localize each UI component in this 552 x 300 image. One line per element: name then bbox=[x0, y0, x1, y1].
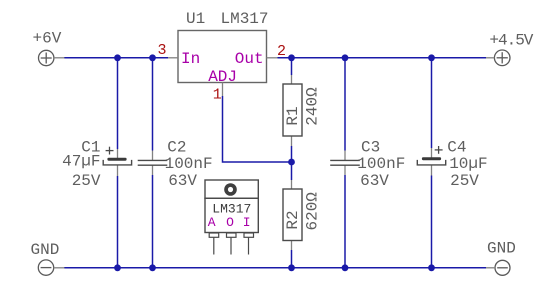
svg-text:47µF: 47µF bbox=[62, 153, 100, 171]
junction bottom C3 bbox=[342, 264, 349, 271]
wire C1 branch bbox=[117, 58, 119, 268]
svg-text:R1: R1 bbox=[284, 106, 302, 125]
pin 1 ADJ of U1 bbox=[208, 68, 237, 103]
capacitor C2 100nF bbox=[138, 139, 213, 190]
svg-text:C2: C2 bbox=[167, 139, 186, 157]
svg-text:O: O bbox=[226, 215, 234, 230]
svg-text:10µF: 10µF bbox=[449, 155, 487, 173]
wire top-right rail bbox=[278, 57, 487, 59]
power flag +6V bbox=[33, 30, 65, 66]
svg-text:Out: Out bbox=[235, 50, 264, 68]
junction top R1 bbox=[288, 54, 295, 61]
wire R1 R2 branch bbox=[291, 58, 293, 268]
svg-text:63V: 63V bbox=[360, 172, 389, 190]
junction bottom C1 bbox=[114, 264, 121, 271]
svg-text:C4: C4 bbox=[447, 139, 466, 157]
TO-220 package picture of LM317 bbox=[205, 180, 258, 255]
svg-text:3: 3 bbox=[158, 42, 167, 59]
svg-text:C3: C3 bbox=[361, 139, 380, 157]
junction top C4 bbox=[428, 54, 435, 61]
svg-text:+6V: +6V bbox=[33, 30, 62, 48]
resistor R2 bbox=[283, 180, 321, 250]
svg-text:100nF: 100nF bbox=[357, 155, 405, 173]
pin 2 Out of U1 bbox=[235, 43, 286, 68]
capacitor C4 10uF polarized bbox=[417, 139, 487, 190]
wire bottom rail bbox=[64, 267, 486, 269]
junction bottom C2 bbox=[149, 264, 156, 271]
wire C2 branch bbox=[152, 58, 154, 268]
power flag GND left bbox=[31, 241, 65, 275]
svg-text:In: In bbox=[181, 50, 200, 68]
svg-text:U1: U1 bbox=[186, 10, 205, 28]
capacitor C1 47uF polarized bbox=[62, 139, 132, 190]
svg-text:2: 2 bbox=[277, 43, 286, 60]
svg-text:ADJ: ADJ bbox=[208, 68, 237, 86]
svg-text:63V: 63V bbox=[168, 172, 197, 190]
power flag +4.5V bbox=[486, 32, 534, 66]
svg-text:+4.5V: +4.5V bbox=[489, 32, 533, 50]
junction top C1 bbox=[114, 54, 121, 61]
svg-text:100nF: 100nF bbox=[165, 155, 213, 173]
capacitor C3 100nF bbox=[330, 139, 405, 190]
svg-text:620Ω: 620Ω bbox=[303, 192, 321, 231]
pin 3 In of U1 bbox=[158, 42, 201, 68]
svg-text:A: A bbox=[208, 215, 216, 230]
junction top C3 bbox=[342, 54, 349, 61]
svg-text:LM317: LM317 bbox=[221, 10, 269, 28]
svg-text:25V: 25V bbox=[72, 172, 101, 190]
svg-text:1: 1 bbox=[213, 86, 222, 103]
svg-text:GND: GND bbox=[487, 240, 516, 258]
resistor R1 bbox=[283, 75, 321, 146]
junction bottom C4 bbox=[428, 264, 435, 271]
svg-text:R2: R2 bbox=[284, 210, 302, 229]
svg-text:240Ω: 240Ω bbox=[303, 87, 321, 126]
power flag GND right bbox=[486, 240, 516, 276]
wire C4 branch bbox=[431, 58, 433, 268]
svg-text:25V: 25V bbox=[450, 172, 479, 190]
wire C3 branch bbox=[344, 58, 346, 268]
op-amp U1 LM317 regulator body bbox=[178, 10, 269, 83]
svg-text:I: I bbox=[243, 215, 251, 230]
wire top-left rail bbox=[64, 57, 168, 59]
junction ADJ R1 R2 bbox=[288, 159, 295, 166]
svg-text:GND: GND bbox=[31, 241, 60, 259]
junction bottom R2 bbox=[288, 264, 295, 271]
junction top C2 bbox=[149, 54, 156, 61]
wire ADJ branch bbox=[223, 96, 292, 162]
